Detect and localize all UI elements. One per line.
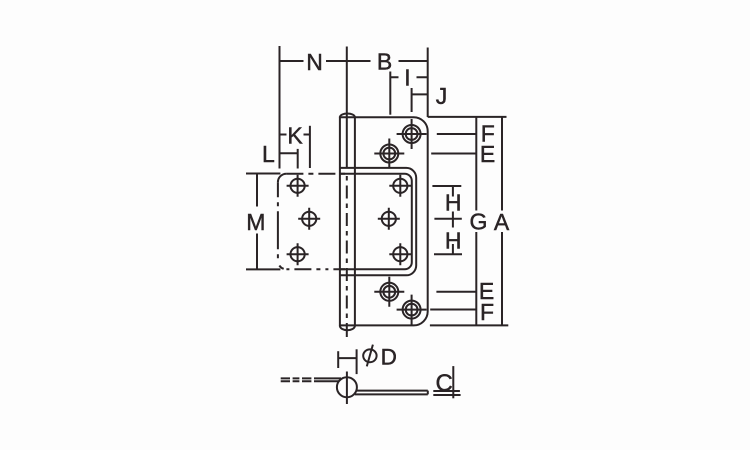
dimension line E top (y=153.5) [431,153,476,155]
phantom leaf bottom-left corner (broken) [278,261,287,270]
extension line right (plate edge, x=427.7) [427,48,429,118]
phi-D extension tick right (x=356.6) [356,349,358,374]
svg-text:N: N [306,49,323,75]
dimension line E bottom (y=292.4) [436,291,476,293]
extension tick L right (x=297.7) [297,149,299,169]
svg-text:M: M [246,209,265,235]
svg-text:J: J [436,83,448,109]
dimension line F bottom (y=309.5) [430,309,476,311]
inner leaf hole top [389,175,411,197]
extension tick J (x=411.6) [411,88,413,112]
svg-text:K: K [287,123,303,149]
C extension lines [433,391,460,395]
extension tick K right (x=309.9) [309,126,311,168]
svg-text:H: H [445,190,462,216]
extension line center (pin axis, x=346.8) [346,47,348,169]
H dimension tick top (y=186) [432,186,461,197]
svg-text:F: F [480,299,494,325]
H dimension tick bottom (y=254.2) [434,244,462,254]
dimension line N-B (y=61) [280,60,428,62]
svg-text:D: D [381,345,397,370]
svg-text:H: H [445,228,462,254]
pin tip below knuckle [346,330,348,338]
tick M top [246,173,280,175]
dimension line L (y=153.3) [280,152,298,154]
side view left leaf (solid part) [314,378,341,381]
svg-text:C: C [436,370,453,397]
svg-text:E: E [480,141,495,167]
inner leaf hole bottom [389,243,411,265]
dimension line G (x=476.3) [475,117,477,326]
pin centerline (dash-dot through knuckle) [346,176,348,330]
extension line left (leaf edge, x=279.5) [279,46,281,169]
C dimension line (x=453.3) [452,366,454,398]
hinge knuckle right bar [354,117,356,327]
phantom leaf hole middle [298,208,320,230]
inner leaf hole middle [378,208,400,230]
phi symbol of phi-D label [363,345,376,367]
dimension line K (y=134.5) [280,134,310,136]
emboss recess outer outline [340,168,416,275]
dimension line A (x=502) [501,117,503,326]
dimension line I (y=77.3) [390,76,427,78]
H dimension middle (y=218.8) [434,212,461,228]
phantom leaf top edge (dashed) [286,173,345,175]
hinge knuckle left bar [339,117,341,327]
phantom leaf hole top [287,175,309,197]
svg-text:L: L [262,141,275,167]
side view right leaf [355,391,428,395]
countersunk hole lower-left [374,277,404,307]
side view left leaf (dashed part) [281,378,312,381]
tick M bottom [246,268,280,270]
knuckle top cap [340,114,355,118]
phantom leaf top-left corner [278,174,287,183]
svg-text:I: I [404,65,410,91]
countersunk hole top-right [397,119,427,149]
phi-D dimension line (y=358.1) [338,357,356,359]
svg-text:G: G [469,208,487,234]
main plate outline (right leaf) [340,117,428,325]
phantom leaf hole bottom [287,243,309,265]
countersunk hole bottom-right [397,295,427,325]
dimension line J (y=94.4) [412,93,428,95]
side view pin centerline [346,372,348,405]
knuckle bottom cap [340,326,355,331]
dimension line M (x=256.6) [256,174,258,270]
extension line bottom right (y=325.4) [430,324,508,326]
extension line top right (y=116.9) [428,116,507,118]
phi-D extension tick left (x=338.2) [337,351,339,368]
phantom leaf left edge (dashed) [277,182,279,261]
phantom leaf bottom edge (dashed) [286,268,345,270]
dimension line F top (y=134) [437,133,477,135]
emboss recess inner outline [340,174,412,270]
countersunk hole upper-left [374,139,404,169]
side view pin circle [337,377,357,397]
svg-text:B: B [377,49,392,75]
svg-text:A: A [494,209,510,235]
extension tick I (x=390.3) [389,72,391,115]
